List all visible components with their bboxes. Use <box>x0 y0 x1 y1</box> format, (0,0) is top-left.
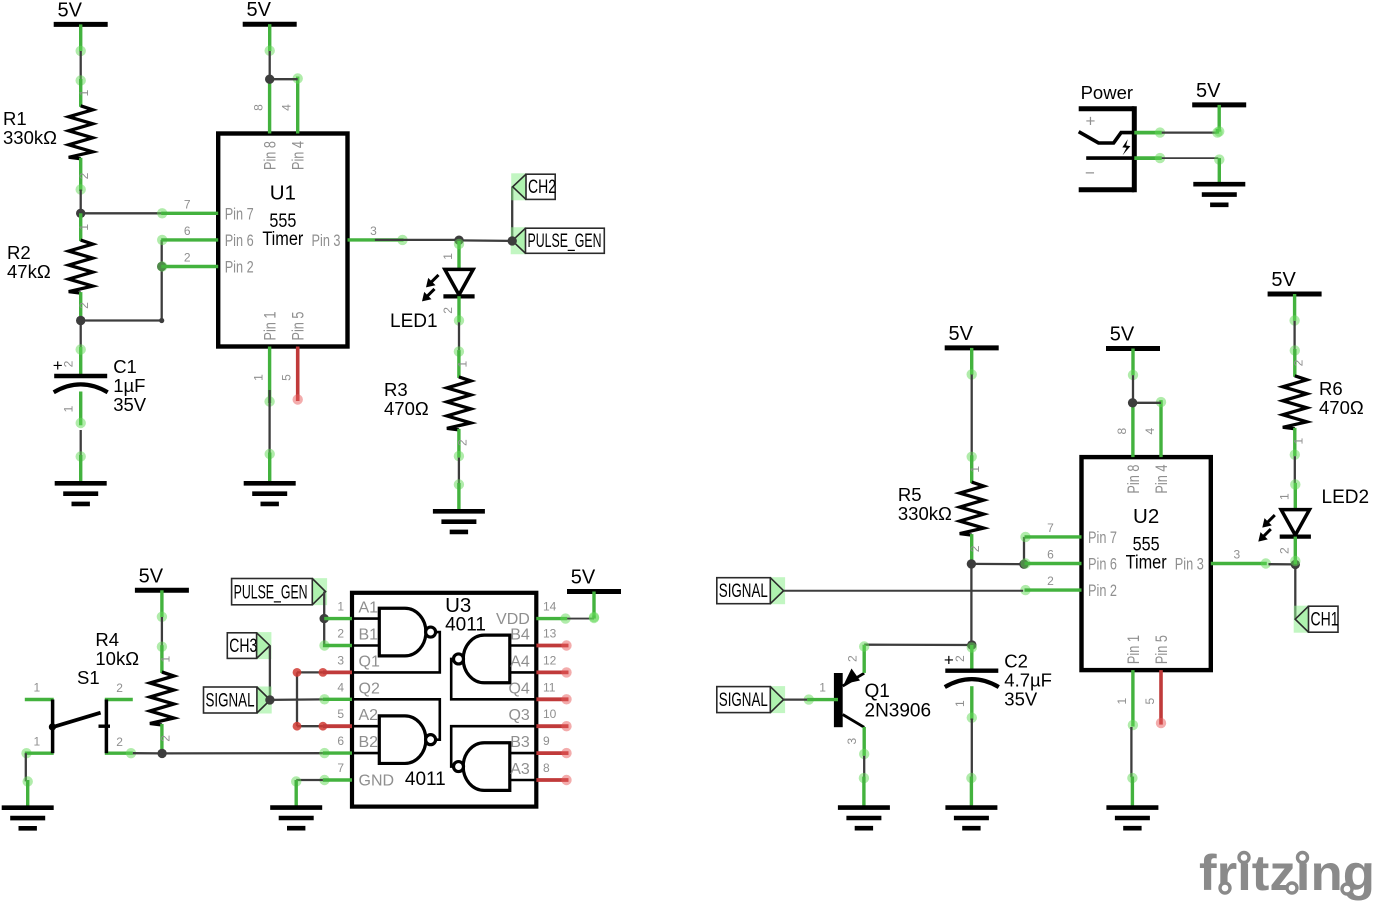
svg-text:330kΩ: 330kΩ <box>3 127 57 148</box>
svg-text:3: 3 <box>370 224 377 238</box>
net label CH2 <box>511 173 556 200</box>
svg-text:1: 1 <box>77 224 91 231</box>
IC U1 555 timer <box>157 73 408 406</box>
resistor R3 <box>384 346 471 461</box>
power +5V symbol V3 (R4 rail) <box>135 565 189 622</box>
power connector (barrel jack) <box>1079 82 1166 192</box>
wire <box>296 672 298 726</box>
junction (S1/R4 node) <box>157 749 166 758</box>
ground symbol GND (U3) <box>270 776 322 828</box>
power +5V symbol V1 (R1 rail) <box>54 0 108 56</box>
svg-text:Pin 4: Pin 4 <box>1153 465 1171 494</box>
junction <box>76 316 85 325</box>
wire <box>323 592 325 619</box>
wire <box>162 752 323 755</box>
LED LED2 <box>1258 487 1369 554</box>
ground symbol GND (R3) <box>433 479 485 532</box>
svg-text:47kΩ: 47kΩ <box>7 261 51 282</box>
switch S1 label <box>77 667 100 688</box>
IC U2 555 timer <box>1020 397 1271 730</box>
fritzing watermark <box>1199 845 1374 901</box>
svg-text:2: 2 <box>968 545 982 552</box>
svg-text:6: 6 <box>184 224 191 238</box>
net label PULSE_GEN <box>232 578 328 605</box>
svg-text:3: 3 <box>845 738 859 745</box>
svg-text:Pin 8: Pin 8 <box>262 141 280 170</box>
svg-text:U1: U1 <box>270 182 296 205</box>
wire <box>297 671 323 673</box>
net label PULSE_GEN <box>511 227 605 254</box>
junction (pin3 node) <box>454 236 463 245</box>
wire <box>268 390 270 453</box>
svg-text:PULSE_GEN: PULSE_GEN <box>234 581 308 603</box>
svg-text:14: 14 <box>543 600 557 614</box>
svg-text:5: 5 <box>1143 697 1157 704</box>
wire <box>270 698 323 701</box>
svg-text:2: 2 <box>116 735 123 749</box>
svg-text:5V: 5V <box>1196 80 1221 102</box>
wire <box>459 239 512 242</box>
svg-text:5V: 5V <box>1271 269 1296 291</box>
svg-text:B3: B3 <box>510 734 530 751</box>
svg-text:7: 7 <box>337 761 344 775</box>
svg-text:LED1: LED1 <box>390 311 438 332</box>
wire <box>1294 456 1296 483</box>
svg-text:SIGNAL: SIGNAL <box>206 690 255 712</box>
svg-text:2: 2 <box>455 439 469 446</box>
wire <box>1269 563 1296 566</box>
svg-text:Pin 3: Pin 3 <box>1175 556 1204 574</box>
svg-text:Q4: Q4 <box>508 680 529 697</box>
wire <box>297 725 323 727</box>
svg-text:Pin 7: Pin 7 <box>225 205 254 223</box>
svg-text:3: 3 <box>337 653 344 667</box>
resistor R2 <box>7 213 93 320</box>
svg-text:CH1: CH1 <box>1311 609 1339 631</box>
svg-text:Timer: Timer <box>262 229 304 250</box>
svg-text:C2: C2 <box>1004 651 1028 672</box>
power +5V symbol V5 (R5 rail) <box>945 323 999 380</box>
junction (R5 bottom) <box>967 559 976 568</box>
svg-text:Q1: Q1 <box>865 681 890 702</box>
wire <box>81 212 162 214</box>
svg-text:U2: U2 <box>1133 505 1159 528</box>
svg-text:2: 2 <box>1047 574 1054 588</box>
svg-text:−: − <box>1085 164 1095 183</box>
ground symbol GND (C2) <box>945 773 997 828</box>
wire <box>971 563 1024 566</box>
svg-text:1: 1 <box>337 600 344 614</box>
svg-text:1: 1 <box>252 374 266 381</box>
wire <box>1023 537 1025 564</box>
svg-text:Q3: Q3 <box>508 707 529 724</box>
ground symbol GND (S1) <box>2 776 54 828</box>
wire <box>80 51 82 80</box>
svg-text:1: 1 <box>819 680 826 694</box>
svg-text:4: 4 <box>1143 427 1157 434</box>
svg-text:R5: R5 <box>898 484 922 505</box>
svg-text:1: 1 <box>441 253 455 260</box>
svg-text:2: 2 <box>441 307 455 314</box>
svg-text:2N3906: 2N3906 <box>865 701 932 722</box>
svg-text:1: 1 <box>1115 697 1129 704</box>
wire <box>1132 375 1134 403</box>
svg-text:Pin 2: Pin 2 <box>225 259 254 277</box>
svg-text:2: 2 <box>62 360 76 367</box>
svg-text:13: 13 <box>543 627 557 641</box>
svg-text:2: 2 <box>77 172 91 179</box>
svg-text:Pin 1: Pin 1 <box>262 312 280 341</box>
wire <box>80 430 82 456</box>
svg-text:4.7µF: 4.7µF <box>1004 670 1052 691</box>
svg-text:1: 1 <box>158 656 172 663</box>
svg-text:Pin 8: Pin 8 <box>1125 465 1143 494</box>
svg-text:Timer: Timer <box>1126 553 1168 574</box>
capacitor C2 <box>944 642 1052 723</box>
svg-text:CH3: CH3 <box>229 635 257 657</box>
wire <box>1130 727 1132 777</box>
power +5V symbol V4 (U3 rail) <box>567 567 621 624</box>
wire <box>511 187 513 241</box>
svg-text:470Ω: 470Ω <box>1319 397 1364 418</box>
svg-text:1: 1 <box>34 681 41 695</box>
svg-text:1: 1 <box>953 700 967 707</box>
resistor R4 <box>95 629 173 753</box>
power +5V symbol V2 (U1 rail) <box>243 0 297 56</box>
svg-text:+: + <box>1086 112 1096 131</box>
wire <box>784 590 1024 592</box>
ground symbol GND (Power) <box>1193 154 1245 204</box>
junction (U2 Vcc) <box>1128 398 1137 407</box>
net label SIGNAL <box>204 687 272 714</box>
svg-text:Pin 1: Pin 1 <box>1125 635 1143 664</box>
wire <box>80 190 82 214</box>
svg-text:B1: B1 <box>359 627 379 644</box>
svg-text:Pin 5: Pin 5 <box>290 312 308 341</box>
LED2 anode pin <box>1290 479 1300 510</box>
svg-text:R3: R3 <box>384 379 408 400</box>
svg-text:A4: A4 <box>510 653 530 670</box>
wire <box>567 618 594 620</box>
svg-text:4011: 4011 <box>405 769 446 790</box>
ground symbol GND (C1) <box>55 451 107 504</box>
svg-text:10: 10 <box>543 707 557 721</box>
red wire endpoint <box>319 668 328 677</box>
wire <box>81 319 162 321</box>
wire <box>1162 131 1218 133</box>
svg-text:3: 3 <box>1233 548 1240 562</box>
svg-text:A3: A3 <box>510 761 530 778</box>
resistor R6 <box>1283 345 1364 460</box>
svg-text:5V: 5V <box>246 0 271 21</box>
svg-text:330kΩ: 330kΩ <box>898 503 952 524</box>
wire <box>161 617 163 646</box>
wire <box>864 644 972 647</box>
svg-text:35V: 35V <box>113 394 147 415</box>
svg-text:1: 1 <box>968 466 982 473</box>
wire <box>133 752 162 755</box>
svg-text:Pin 4: Pin 4 <box>290 141 308 170</box>
junction (SIGNAL node) <box>265 695 274 704</box>
svg-text:5V: 5V <box>571 567 596 589</box>
pushbutton S1 <box>21 681 136 759</box>
wire <box>784 698 808 700</box>
svg-text:Pin 3: Pin 3 <box>312 232 341 250</box>
net label SIGNAL <box>717 686 785 713</box>
svg-text:7: 7 <box>184 197 191 211</box>
svg-text:Pin 2: Pin 2 <box>1088 582 1117 600</box>
capacitor C1 <box>53 344 147 428</box>
wire <box>1162 157 1219 159</box>
svg-text:5V: 5V <box>139 565 164 587</box>
svg-text:Pin 6: Pin 6 <box>1088 556 1117 574</box>
svg-text:LED2: LED2 <box>1322 487 1370 508</box>
ground symbol GND (Q1) <box>838 773 890 828</box>
IC U3 4011 quad NAND <box>319 593 571 807</box>
svg-text:1: 1 <box>1277 493 1291 500</box>
junction (LED2 node) <box>1291 560 1300 569</box>
svg-text:1: 1 <box>77 89 91 96</box>
svg-text:Pin 7: Pin 7 <box>1088 529 1117 547</box>
wire <box>458 322 460 350</box>
svg-text:2: 2 <box>846 655 860 662</box>
red wire endpoint <box>293 722 302 731</box>
red wire endpoint <box>319 722 328 731</box>
svg-text:10kΩ: 10kΩ <box>95 648 139 669</box>
svg-text:2: 2 <box>1277 547 1291 554</box>
svg-text:R4: R4 <box>95 629 119 650</box>
LED LED1 <box>390 253 475 332</box>
junction <box>157 262 166 271</box>
svg-text:1: 1 <box>1291 438 1305 445</box>
svg-text:12: 12 <box>543 653 557 667</box>
svg-text:1: 1 <box>455 360 469 367</box>
svg-text:8: 8 <box>252 104 266 111</box>
svg-text:1: 1 <box>62 405 76 412</box>
svg-text:SIGNAL: SIGNAL <box>719 580 768 602</box>
svg-text:B2: B2 <box>359 734 379 751</box>
svg-text:B4: B4 <box>510 627 530 644</box>
svg-text:2: 2 <box>337 627 344 641</box>
power +5V symbol V6 (U2 rail) <box>1106 324 1160 381</box>
svg-text:Q2: Q2 <box>359 680 380 697</box>
junction (U2 pin6 node) <box>1019 560 1028 569</box>
svg-text:6: 6 <box>337 734 344 748</box>
junction (PULSE_GEN node) <box>508 236 517 245</box>
svg-text:Pin 6: Pin 6 <box>225 232 254 250</box>
net label SIGNAL <box>717 577 785 604</box>
ground symbol GND (U2) <box>1106 773 1158 828</box>
wire <box>25 753 27 781</box>
svg-text:2: 2 <box>184 251 191 265</box>
svg-text:2: 2 <box>77 302 91 309</box>
svg-text:PULSE_GEN: PULSE_GEN <box>528 230 602 252</box>
wire <box>296 779 323 781</box>
wire <box>863 756 865 778</box>
svg-text:9: 9 <box>543 734 550 748</box>
svg-text:R2: R2 <box>7 242 31 263</box>
svg-text:2: 2 <box>953 655 967 662</box>
svg-text:8: 8 <box>1115 427 1129 434</box>
svg-text:8: 8 <box>543 761 550 775</box>
power +5V symbol V8 (Power rail) <box>1192 80 1246 137</box>
svg-text:5V: 5V <box>1110 324 1135 346</box>
svg-text:S1: S1 <box>77 667 100 688</box>
svg-text:A1: A1 <box>359 600 379 617</box>
svg-text:4: 4 <box>337 680 344 694</box>
svg-text:Q1: Q1 <box>359 653 380 670</box>
LED2 cathode pin <box>1290 537 1300 567</box>
svg-text:Pin 5: Pin 5 <box>1153 635 1171 664</box>
svg-text:6: 6 <box>1047 548 1054 562</box>
wire bendpoint <box>159 318 164 323</box>
wire <box>269 51 271 79</box>
ground symbol GND (U1) <box>244 449 296 504</box>
wire <box>270 78 298 80</box>
wire <box>161 240 163 267</box>
wire <box>458 458 460 485</box>
svg-text:35V: 35V <box>1004 689 1038 710</box>
svg-text:2: 2 <box>116 681 123 695</box>
svg-text:5: 5 <box>280 374 294 381</box>
LED1 cathode pin <box>454 296 464 325</box>
svg-text:Power: Power <box>1081 82 1133 103</box>
junction (C2 node) <box>967 640 976 649</box>
svg-text:A2: A2 <box>359 707 379 724</box>
svg-text:2: 2 <box>158 735 172 742</box>
wire <box>375 239 459 241</box>
svg-text:1µF: 1µF <box>113 375 145 396</box>
junction (U1 Vcc) <box>265 75 274 84</box>
svg-text:11: 11 <box>543 680 556 694</box>
svg-text:470Ω: 470Ω <box>384 398 429 419</box>
wire <box>80 321 82 349</box>
resistor R1 <box>3 75 93 194</box>
wire <box>161 267 163 321</box>
power +5V symbol V7 (R6 rail) <box>1268 269 1322 326</box>
svg-text:R6: R6 <box>1319 378 1343 399</box>
wire <box>970 564 972 645</box>
svg-text:5V: 5V <box>57 0 82 21</box>
resistor R5 <box>898 452 984 564</box>
svg-text:R1: R1 <box>3 108 27 129</box>
svg-text:5: 5 <box>337 707 344 721</box>
wire <box>1294 564 1296 619</box>
wire <box>1133 402 1161 404</box>
wire <box>269 646 271 700</box>
junction <box>76 209 85 218</box>
wire <box>1293 321 1295 350</box>
red wire endpoint <box>293 668 302 677</box>
svg-text:2: 2 <box>1291 359 1305 366</box>
svg-text:4: 4 <box>280 104 294 111</box>
net label CH1 <box>1294 606 1339 633</box>
svg-text:SIGNAL: SIGNAL <box>719 689 768 711</box>
wire <box>323 619 325 646</box>
wire <box>589 612 599 622</box>
wire <box>971 719 973 778</box>
svg-text:GND: GND <box>359 773 395 790</box>
svg-text:CH2: CH2 <box>528 176 556 198</box>
wire <box>971 375 973 457</box>
svg-text:5V: 5V <box>948 323 973 345</box>
junction (U3 pin1 node) <box>320 614 329 623</box>
svg-text:1: 1 <box>34 735 41 749</box>
transistor Q1 2N3906 (PNP) <box>804 641 931 759</box>
svg-text:7: 7 <box>1047 521 1054 535</box>
net label CH3 <box>227 632 271 659</box>
svg-text:C1: C1 <box>113 356 137 377</box>
LED1 anode pin <box>454 239 464 270</box>
wire <box>1212 127 1222 137</box>
svg-text:4011: 4011 <box>445 615 486 636</box>
